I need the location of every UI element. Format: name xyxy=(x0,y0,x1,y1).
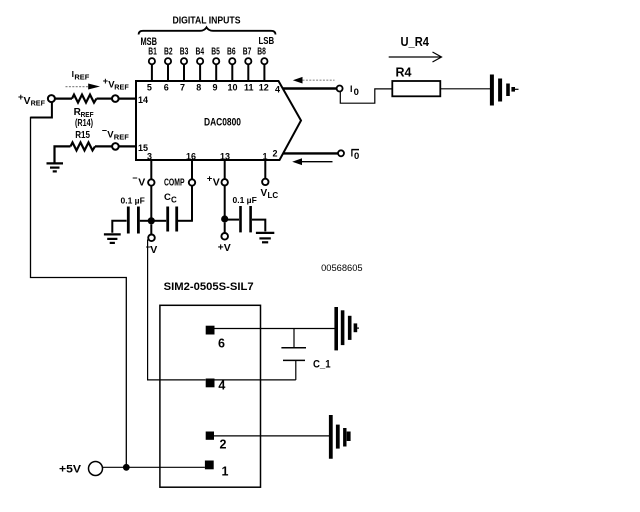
svg-text:DIGITAL INPUTS: DIGITAL INPUTS xyxy=(173,15,241,26)
svg-text:B1: B1 xyxy=(148,46,157,57)
svg-text:0.1 µF: 0.1 µF xyxy=(233,195,257,205)
ground right of C2 xyxy=(256,233,274,242)
terminal circle B2 xyxy=(165,58,171,64)
svg-text:+5V: +5V xyxy=(59,464,82,476)
terminal circle pin1 VLC xyxy=(262,179,268,185)
svg-text:SIM2-0505S-SIL7: SIM2-0505S-SIL7 xyxy=(164,281,254,293)
svg-text:V: V xyxy=(24,95,31,107)
terminal circle IO xyxy=(337,86,343,92)
SIM2 pin 2 square xyxy=(206,432,214,440)
svg-text:1: 1 xyxy=(222,465,229,479)
svg-text:V: V xyxy=(138,176,145,188)
brace over digital inputs xyxy=(139,27,276,34)
svg-text:0.1 µF: 0.1 µF xyxy=(121,196,145,206)
svg-text:−: − xyxy=(102,126,107,136)
terminal circle +V xyxy=(221,233,228,240)
wire pin10 B6 xyxy=(231,65,233,82)
wire node to pin15 xyxy=(119,145,136,147)
svg-text:0: 0 xyxy=(354,87,359,98)
wire pin13 circle to junction xyxy=(224,186,226,219)
terminal circle B5 xyxy=(213,58,219,64)
svg-text:DAC0800: DAC0800 xyxy=(204,116,241,128)
wire +VREF long run to +5V node xyxy=(31,117,127,467)
wire pin8 B4 xyxy=(199,65,201,82)
junction dot +V node xyxy=(221,215,228,222)
wire pin6 to battery xyxy=(215,328,335,330)
svg-text:U_R4: U_R4 xyxy=(401,35,430,49)
svg-text:11: 11 xyxy=(244,83,254,93)
SIM2 pin 4 square xyxy=(206,379,215,388)
current arrow IREF xyxy=(66,84,101,90)
svg-text:C: C xyxy=(171,196,177,205)
wire pin6 B2 xyxy=(167,65,169,82)
SIM2 pin 6 square xyxy=(206,326,215,335)
svg-text:B3: B3 xyxy=(180,46,189,57)
capacitor C2 0.1uF plates xyxy=(241,206,251,232)
wire junction to -V terminal xyxy=(150,224,152,234)
wire +VREF down-left xyxy=(31,102,52,118)
svg-text:REF: REF xyxy=(31,98,46,107)
wire pin2 to IObar terminal xyxy=(283,152,338,154)
wire pin16 circle down xyxy=(191,186,193,221)
ground left of C1 xyxy=(104,234,121,243)
svg-text:4: 4 xyxy=(218,379,225,393)
terminal circle B8 xyxy=(261,58,267,64)
svg-text:8: 8 xyxy=(196,82,201,92)
svg-text:6: 6 xyxy=(164,82,169,92)
svg-text:B6: B6 xyxy=(227,46,236,57)
svg-text:LSB: LSB xyxy=(259,35,275,47)
svg-text:−: − xyxy=(132,173,137,183)
wire node to pin14 xyxy=(119,97,136,99)
svg-text:(R14): (R14) xyxy=(75,118,93,129)
wire CC to pin16 xyxy=(178,220,193,222)
resistor R4 box xyxy=(392,81,440,96)
wire pin3 circle to junction xyxy=(150,186,152,221)
svg-text:REF: REF xyxy=(114,83,129,92)
svg-text:B2: B2 xyxy=(164,46,173,57)
junction dot -V node xyxy=(148,217,155,224)
wire pin4 square to C_1 bottom xyxy=(215,379,296,381)
svg-text:V: V xyxy=(224,242,231,254)
terminal circle +5V xyxy=(89,462,103,476)
wire pin4 to IO terminal xyxy=(283,87,337,89)
capacitor CC plates xyxy=(168,207,177,232)
svg-text:LC: LC xyxy=(268,191,279,200)
svg-text:B8: B8 xyxy=(257,46,266,57)
wire pin1 down xyxy=(264,160,266,178)
node circle at pin14 xyxy=(112,95,119,102)
svg-text:9: 9 xyxy=(212,83,217,93)
svg-text:R15: R15 xyxy=(75,130,90,141)
svg-text:6: 6 xyxy=(218,336,225,350)
terminal circle B4 xyxy=(197,58,203,64)
svg-text:B5: B5 xyxy=(211,46,220,57)
module SIM2 outline xyxy=(160,305,261,487)
wire R15 to node xyxy=(95,145,112,147)
svg-text:C_1: C_1 xyxy=(313,359,331,371)
terminal circle B6 xyxy=(229,58,235,64)
terminal circle -V xyxy=(148,235,155,242)
wire +V junction to terminal xyxy=(224,223,226,233)
wire junction to C2 xyxy=(228,219,239,221)
current arrow out of pin2 xyxy=(292,158,332,165)
wire R4 to battery xyxy=(440,88,490,90)
svg-text:7: 7 xyxy=(180,82,185,92)
svg-text:14: 14 xyxy=(138,95,148,105)
terminal +VREF xyxy=(48,95,55,102)
terminal circle IObar xyxy=(338,150,344,156)
wire +5V to pin1 xyxy=(102,466,205,468)
battery symbol at R4 xyxy=(492,75,519,106)
wire IO to R4 xyxy=(340,89,392,103)
battery symbol at pin6 xyxy=(336,307,359,350)
wire ground to R15 xyxy=(55,146,71,162)
svg-text:B4: B4 xyxy=(196,46,205,57)
terminal circle B3 xyxy=(181,58,187,64)
resistor R15 xyxy=(71,142,96,150)
svg-text:10: 10 xyxy=(227,83,237,93)
svg-text:2: 2 xyxy=(220,438,227,452)
wire pin5 B1 xyxy=(151,65,153,82)
wire +VREF to RREF xyxy=(55,97,72,99)
terminal circle pin13 xyxy=(222,179,228,185)
SIM2 pin 1 square xyxy=(205,461,214,470)
ground under R15 xyxy=(47,163,64,171)
svg-text:COMP: COMP xyxy=(164,176,185,188)
svg-text:V: V xyxy=(213,176,220,188)
battery symbol at pin2 xyxy=(331,415,351,459)
capacitor C1 0.1uF plates xyxy=(128,207,138,234)
IC U1 DAC0800 outline xyxy=(136,81,301,160)
junction dot +5V node xyxy=(123,464,130,471)
terminal circle B7 xyxy=(245,58,251,64)
wire C2 to ground xyxy=(252,220,265,232)
wire pin16 down xyxy=(191,160,193,179)
wire pin12 B8 xyxy=(263,65,265,82)
svg-text:B7: B7 xyxy=(243,46,252,57)
svg-text:I: I xyxy=(351,149,354,159)
svg-text:2: 2 xyxy=(272,148,277,158)
wire RREF to node xyxy=(97,97,113,99)
svg-text:4: 4 xyxy=(275,84,280,94)
svg-text:0: 0 xyxy=(354,151,359,162)
label IObar xyxy=(351,149,360,162)
terminal circle B1 xyxy=(149,58,155,64)
wire pin2 to battery xyxy=(214,435,330,437)
wire pin9 B5 xyxy=(215,65,217,82)
svg-text:C: C xyxy=(164,192,171,203)
svg-text:+: + xyxy=(103,76,108,86)
wire pin3 down xyxy=(150,160,152,179)
terminal circle pin16 xyxy=(189,179,195,185)
svg-text:V: V xyxy=(150,244,157,256)
wire pin11 B7 xyxy=(247,65,249,82)
svg-text:REF: REF xyxy=(74,72,89,81)
resistor RREF (R14) xyxy=(72,95,97,103)
voltage arrow U_R4 xyxy=(389,52,442,62)
svg-text:5: 5 xyxy=(147,82,152,92)
wire junction to CC xyxy=(155,220,167,222)
wire pin7 B3 xyxy=(183,65,185,82)
capacitor C_1 xyxy=(281,329,306,380)
svg-text:V: V xyxy=(261,188,268,199)
svg-text:00568605: 00568605 xyxy=(321,263,363,274)
svg-text:R4: R4 xyxy=(396,66,412,80)
node circle at pin15 xyxy=(112,143,119,150)
wire C1 to junction xyxy=(140,220,148,222)
wire -V terminal down to SIM pin4 xyxy=(148,240,206,380)
wire pin13 down xyxy=(224,160,226,179)
svg-text:REF: REF xyxy=(114,133,129,142)
wire ground to C1 xyxy=(112,221,126,233)
svg-text:12: 12 xyxy=(259,83,269,93)
svg-text:I: I xyxy=(350,84,353,94)
current arrow into pin4 xyxy=(293,77,335,84)
terminal circle pin3 xyxy=(148,179,154,185)
